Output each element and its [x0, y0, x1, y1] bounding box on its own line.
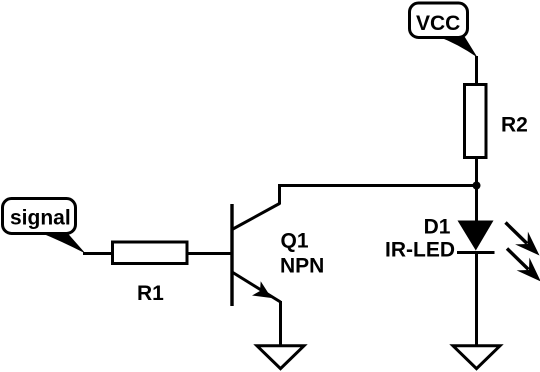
transistor Q1 emitter arrowhead	[252, 281, 272, 298]
node label "VCC" bubble	[410, 3, 468, 38]
light emission arrow 1 head	[515, 232, 539, 256]
svg-text:D1: D1	[424, 216, 451, 239]
transistor Q1 emitter diagonal	[232, 272, 281, 302]
svg-text:VCC: VCC	[416, 12, 460, 35]
light emission arrow 1 shaft	[506, 223, 528, 244]
ground symbol (LED)	[453, 346, 500, 369]
wire emitter to ground	[279, 301, 282, 345]
LED D1 cathode bar	[457, 251, 495, 254]
transistor Q1 collector vertical wire	[280, 186, 477, 205]
svg-text:R1: R1	[137, 282, 164, 305]
svg-text:Q1: Q1	[281, 230, 309, 253]
LED D1 anode triangle	[458, 221, 494, 251]
transistor Q1 base bar	[230, 204, 233, 306]
resistor R2	[465, 85, 487, 158]
node label "signal" bubble	[3, 199, 76, 234]
svg-text:NPN: NPN	[280, 255, 324, 278]
junction node dot	[473, 182, 481, 190]
wire signal to R1	[83, 252, 113, 255]
light emission arrow 2 head	[517, 258, 540, 282]
svg-text:signal: signal	[10, 207, 71, 230]
wire R1 to base	[188, 252, 232, 255]
svg-text:IR-LED: IR-LED	[385, 239, 455, 262]
VCC bubble tail	[438, 37, 478, 58]
wire LED to ground	[475, 253, 478, 346]
wire VCC to R2	[475, 56, 478, 85]
signal bubble tail	[40, 233, 86, 254]
ground symbol (emitter)	[257, 346, 304, 369]
wire R2 to LED	[475, 159, 478, 222]
svg-text:R2: R2	[501, 114, 528, 137]
resistor R1	[113, 242, 188, 264]
transistor Q1 collector diagonal	[232, 204, 280, 230]
light emission arrow 2 shaft	[507, 249, 529, 270]
